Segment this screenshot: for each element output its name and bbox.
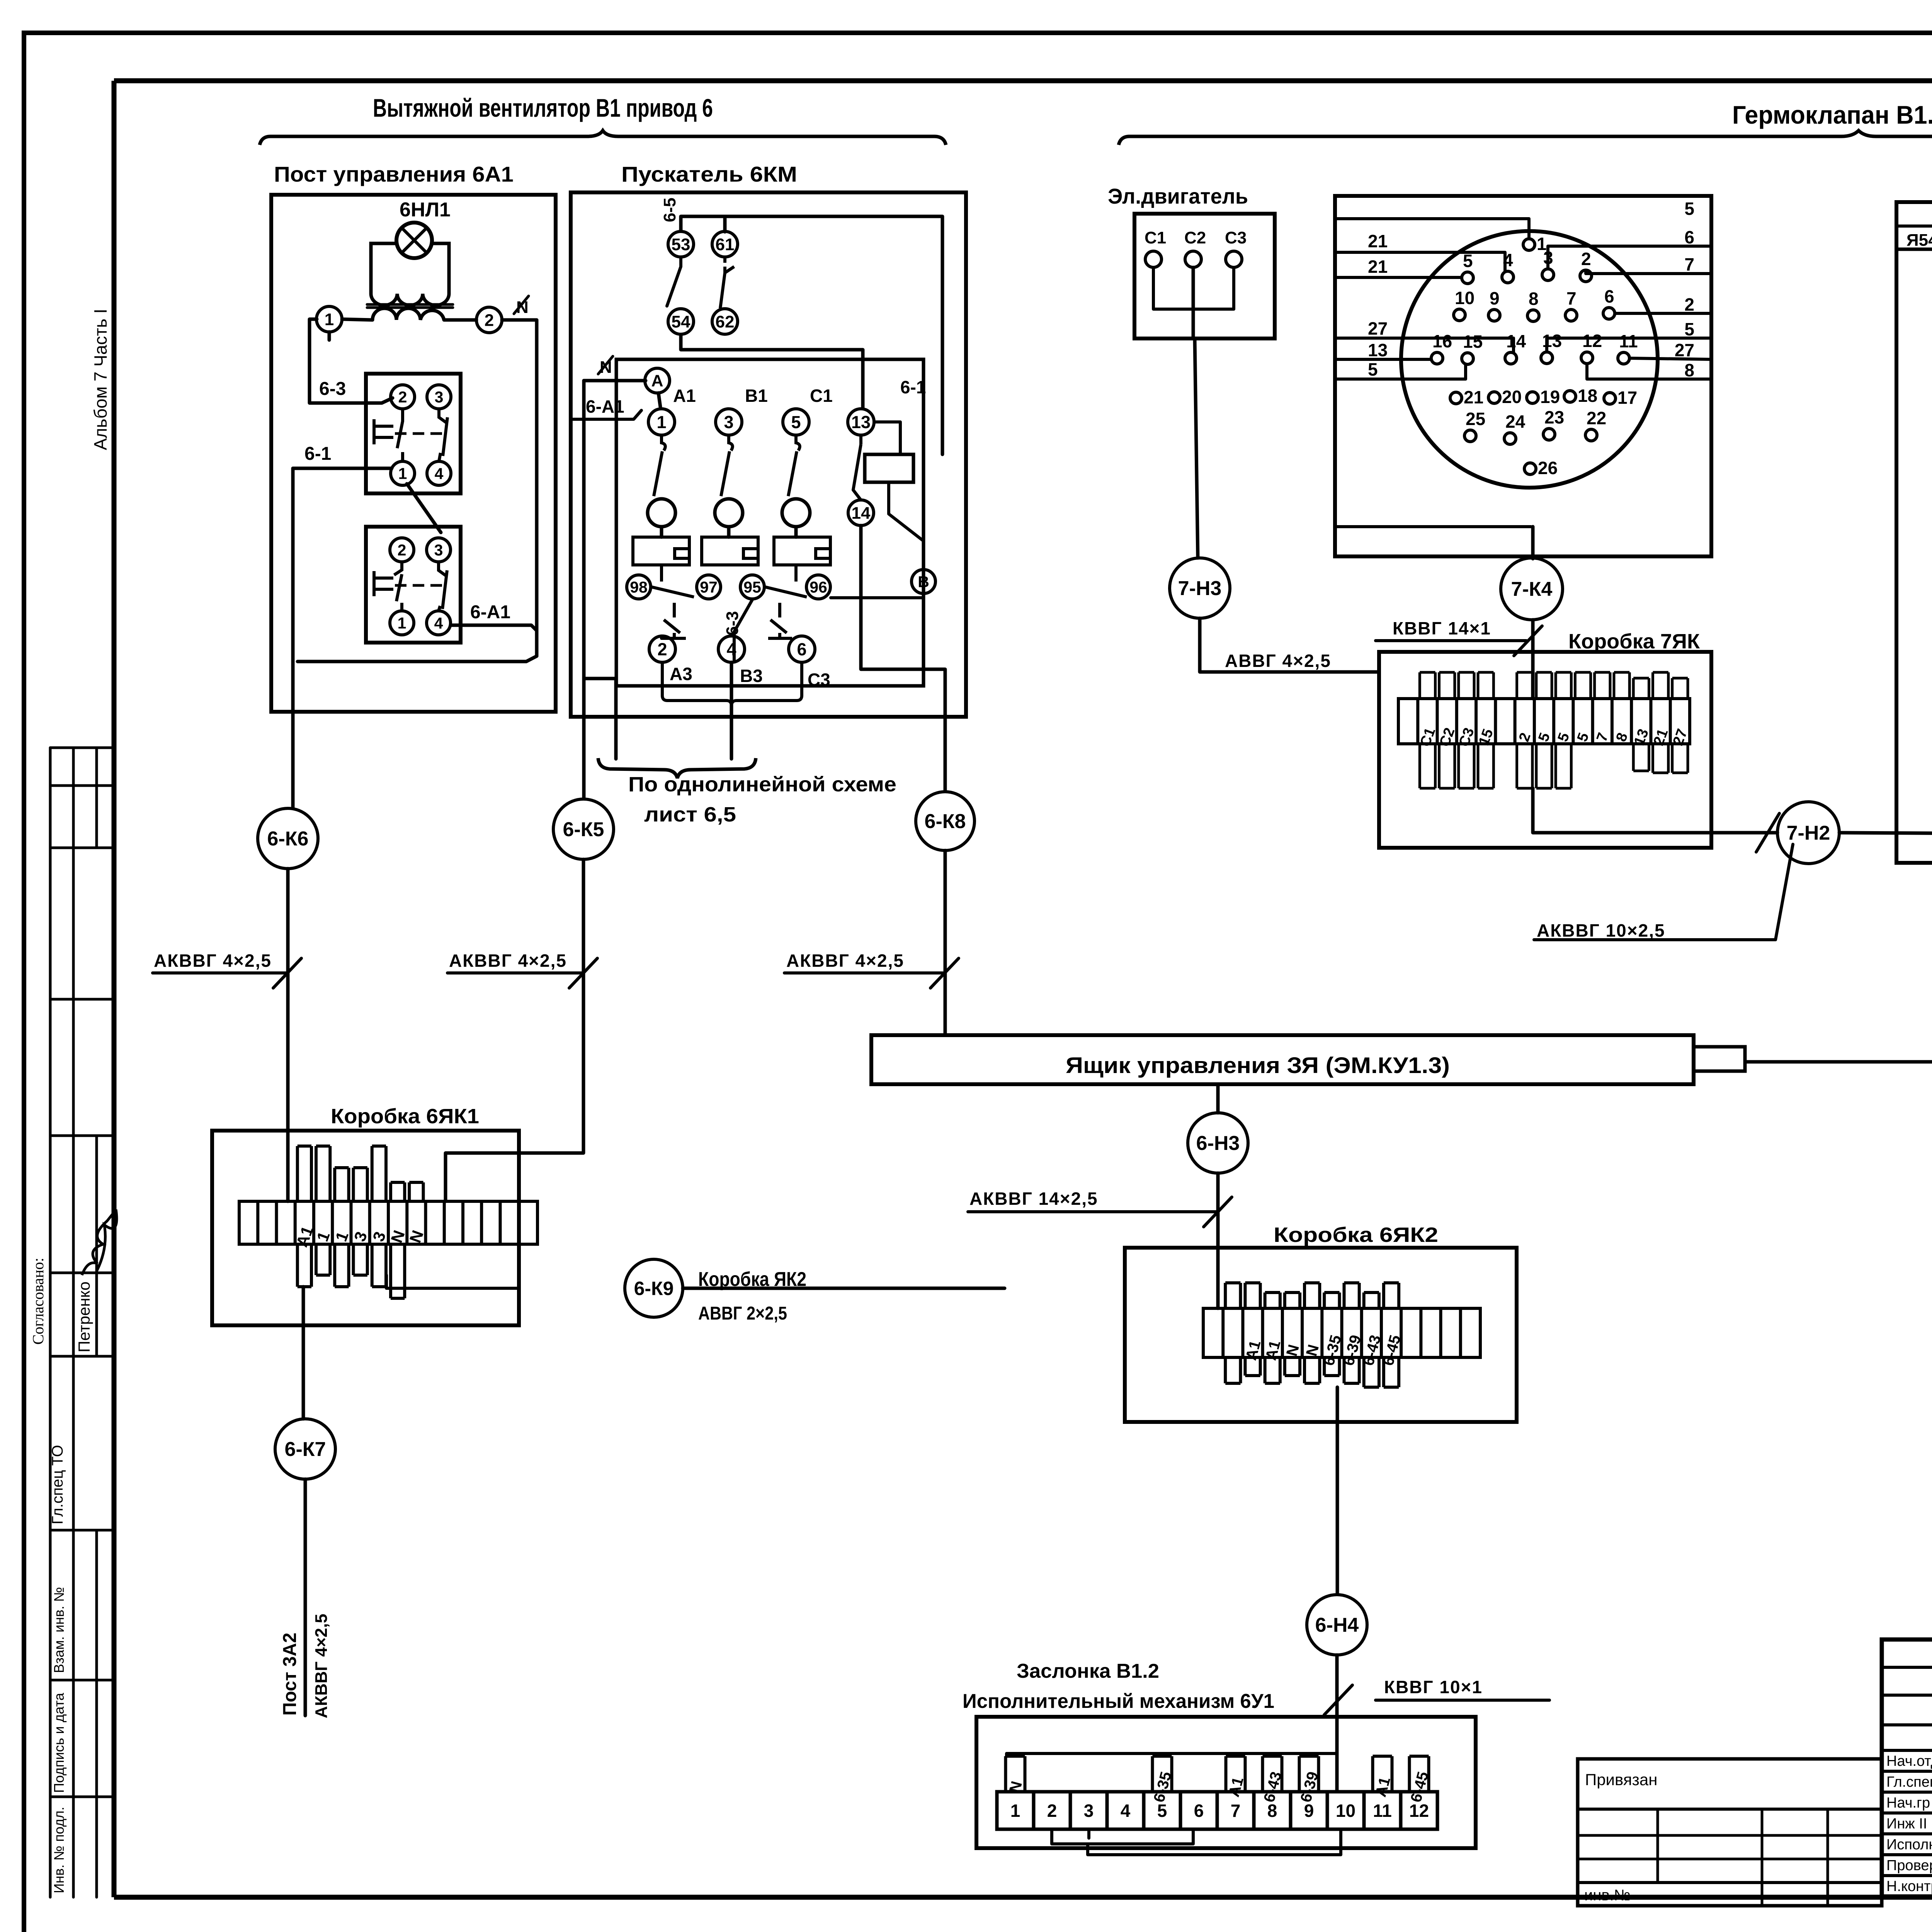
button contact 3 xyxy=(427,385,451,409)
svg-text:3: 3 xyxy=(435,388,444,406)
svg-text:26: 26 xyxy=(1538,458,1558,478)
lower fingers 6YAK2 xyxy=(1225,1357,1240,1383)
connector line right 8 xyxy=(1587,364,1711,379)
transformer core xyxy=(367,303,453,306)
inner panel of 6KM xyxy=(616,359,923,686)
svg-text:2: 2 xyxy=(398,541,406,559)
lower jumper brackets xyxy=(1052,1829,1193,1844)
node 6-N3 xyxy=(1188,1113,1248,1173)
main contacts of poles xyxy=(654,435,665,496)
svg-text:Гермоклапан В1.1 привод 7: Гермоклапан В1.1 привод 7 xyxy=(1732,100,1932,129)
pin 19 xyxy=(1527,392,1538,403)
wire below 6-K6 xyxy=(286,869,290,1201)
connector line right 27 xyxy=(1629,358,1711,359)
svg-text:Нач.гр: Нач.гр xyxy=(1886,1795,1930,1811)
contact strokes upper block xyxy=(397,409,403,461)
svg-text:АКВВГ 4×2,5: АКВВГ 4×2,5 xyxy=(786,951,904,971)
wire top 6-5 rail xyxy=(681,216,942,350)
wire 6-K6 drop from button1 line xyxy=(291,468,295,808)
aux contact 14 xyxy=(848,500,874,526)
pin 1 xyxy=(1523,239,1535,250)
svg-text:КВВГ 10×1: КВВГ 10×1 xyxy=(1384,1677,1483,1697)
wire below 6-K7 / Post 3A2 riser xyxy=(304,1479,307,1716)
wire 13-14 link xyxy=(853,490,861,500)
svg-text:10: 10 xyxy=(1336,1801,1355,1821)
svg-text:11: 11 xyxy=(1373,1801,1392,1821)
svg-text:2: 2 xyxy=(398,388,407,406)
svg-text:Инв. № подл.: Инв. № подл. xyxy=(51,1807,67,1893)
junction box 7YAK xyxy=(1379,652,1711,848)
wire N-leg down to brace xyxy=(584,679,616,759)
wire 13 area to coil xyxy=(941,350,944,454)
lamp 6HL1 xyxy=(396,223,432,258)
wire 6-3 from terminal1 to button 2 xyxy=(328,332,331,340)
svg-text:10: 10 xyxy=(1455,288,1475,308)
pin 25 xyxy=(1464,430,1476,442)
front view frame 7YA cabinet xyxy=(1896,202,1932,863)
svg-text:19: 19 xyxy=(1540,387,1560,407)
svg-text:25: 25 xyxy=(1466,409,1485,429)
pole terminal 5 xyxy=(783,409,809,435)
contact 97 xyxy=(697,575,721,599)
thermal contact symbol left xyxy=(651,565,694,638)
svg-text:97: 97 xyxy=(700,578,718,596)
pin 17 xyxy=(1604,393,1616,404)
transformer secondary coil xyxy=(372,308,444,320)
pin 4 xyxy=(1502,271,1514,283)
thermal contact symbol right xyxy=(765,565,807,638)
button contact 2 xyxy=(391,385,415,409)
svg-text:6-К5: 6-К5 xyxy=(563,818,604,841)
wire B to 96 xyxy=(831,594,923,598)
button contact 1 xyxy=(391,461,415,485)
svg-text:Гл.спец: Гл.спец xyxy=(1886,1774,1932,1790)
svg-text:6-45: 6-45 xyxy=(1407,1770,1432,1804)
aux contact 61 xyxy=(712,231,738,257)
svg-text:6-3: 6-3 xyxy=(319,379,346,399)
pin 21 xyxy=(1450,392,1462,404)
svg-text:12: 12 xyxy=(1409,1801,1429,1821)
svg-text:Исполнительный механизм 6У1: Исполнительный механизм 6У1 xyxy=(963,1690,1274,1713)
contact stroke 53-54 xyxy=(667,257,681,306)
wire coil to terminals xyxy=(342,319,372,320)
svg-text:6-35: 6-35 xyxy=(1150,1770,1175,1804)
svg-text:6-Н4: 6-Н4 xyxy=(1315,1614,1359,1636)
connector line right 5b xyxy=(1547,338,1711,352)
svg-text:В3: В3 xyxy=(740,666,763,686)
lower pushbutton block of 6A1 xyxy=(366,527,461,643)
connector line right 6 xyxy=(1548,246,1711,269)
svg-text:АКВВГ 4×2,5: АКВВГ 4×2,5 xyxy=(449,951,567,971)
svg-text:Привязан: Привязан xyxy=(1585,1770,1657,1789)
svg-text:А1: А1 xyxy=(673,386,696,406)
svg-text:22: 22 xyxy=(1587,408,1606,428)
svg-text:А3: А3 xyxy=(670,664,692,684)
svg-text:3: 3 xyxy=(1084,1801,1094,1821)
upper fingers 7YAK xyxy=(1420,672,1435,699)
pin 10 xyxy=(1454,309,1465,321)
control cabinet 3YA bar xyxy=(871,1035,1694,1084)
wire cross from upper btn1 to lower btn3 xyxy=(407,484,441,532)
svg-text:Эл.двигатель: Эл.двигатель xyxy=(1108,184,1248,208)
svg-text:лист 6,5: лист 6,5 xyxy=(644,803,736,826)
cable circle 6-K8 xyxy=(916,792,975,850)
svg-text:6-К7: 6-К7 xyxy=(285,1438,326,1461)
contact 95 xyxy=(740,575,764,599)
wire 6-N4 down xyxy=(1335,1655,1339,1792)
lower button contact 3 xyxy=(427,538,451,562)
svg-text:2: 2 xyxy=(1047,1801,1057,1821)
aux circuit B coil rect xyxy=(865,454,913,482)
svg-text:15: 15 xyxy=(1463,332,1483,352)
svg-text:6-5: 6-5 xyxy=(660,197,679,222)
type table 7 / Ya5411-2074 xyxy=(1896,202,1932,249)
svg-text:2: 2 xyxy=(657,639,667,659)
pin 8 xyxy=(1527,310,1539,321)
svg-text:11: 11 xyxy=(1619,331,1638,351)
svg-text:21: 21 xyxy=(1464,387,1483,407)
svg-text:Вытяжной вентилятор В1 привод: Вытяжной вентилятор В1 привод 6 xyxy=(373,94,713,122)
svg-text:14: 14 xyxy=(852,503,871,522)
svg-text:АКВВГ 14×2,5: АКВВГ 14×2,5 xyxy=(969,1189,1098,1209)
svg-text:АКВВГ 4×2,5: АКВВГ 4×2,5 xyxy=(154,951,272,971)
cable circle 6-K9 xyxy=(625,1259,683,1317)
wire connector to 7-K4 xyxy=(1531,527,1535,559)
svg-text:27: 27 xyxy=(1368,318,1388,338)
wires from heaters to terminals 2-4-6 xyxy=(660,636,663,638)
svg-text:62: 62 xyxy=(716,312,735,331)
svg-text:АВВГ 2×2,5: АВВГ 2×2,5 xyxy=(698,1303,787,1324)
svg-text:5: 5 xyxy=(1555,731,1573,744)
svg-text:7-Н3: 7-Н3 xyxy=(1178,577,1222,600)
svg-text:6-К9: 6-К9 xyxy=(634,1278,674,1299)
starter 6KM box xyxy=(571,192,966,717)
svg-text:7: 7 xyxy=(1684,254,1694,274)
svg-text:6-43: 6-43 xyxy=(1260,1770,1285,1804)
svg-text:7: 7 xyxy=(1566,288,1577,308)
brace under right title xyxy=(1119,131,1932,145)
wire 6-N3 into strip xyxy=(1216,1291,1219,1308)
wire below 6-K8 xyxy=(944,850,947,1035)
svg-text:5: 5 xyxy=(1684,199,1694,219)
lower button contact 1 xyxy=(390,611,414,635)
wire 54 to contactor rail xyxy=(681,335,863,408)
svg-text:2: 2 xyxy=(1581,249,1591,269)
svg-text:6: 6 xyxy=(1604,286,1614,306)
svg-text:12: 12 xyxy=(1582,331,1602,351)
svg-text:Инж II кат: Инж II кат xyxy=(1886,1816,1932,1832)
terminal strip 6YAK2 xyxy=(1203,1308,1480,1357)
svg-text:8: 8 xyxy=(1684,360,1694,380)
aux contact B xyxy=(912,570,935,594)
button contact 4 xyxy=(427,461,451,485)
svg-text:1: 1 xyxy=(1010,1801,1020,1821)
svg-text:Пост управления 6А1: Пост управления 6А1 xyxy=(274,162,514,186)
wire 7-N2 right xyxy=(1839,833,1932,837)
pin 23 xyxy=(1543,429,1555,440)
pin 3 xyxy=(1542,269,1554,281)
pole coil circles xyxy=(648,499,675,527)
pin 2 xyxy=(1580,270,1592,282)
cable circle 7-K4 xyxy=(1501,558,1563,620)
connector line left 21b xyxy=(1335,276,1462,279)
svg-text:14: 14 xyxy=(1506,331,1526,351)
wire from terminal 4 down xyxy=(730,662,733,759)
svg-text:4: 4 xyxy=(434,614,443,632)
svg-text:6НЛ1: 6НЛ1 xyxy=(400,199,451,221)
svg-text:6-К8: 6-К8 xyxy=(925,810,966,833)
svg-text:6-1: 6-1 xyxy=(900,377,926,397)
svg-text:А: А xyxy=(651,372,663,390)
thermal heater 3 xyxy=(774,537,830,565)
svg-text:18: 18 xyxy=(1578,386,1597,406)
svg-text:В1: В1 xyxy=(745,386,768,406)
connector line left 27 xyxy=(1335,338,1514,353)
pushbutton actuator symbol lower xyxy=(374,571,393,596)
wire 6-A1 entering xyxy=(571,410,641,419)
terminal A circled xyxy=(645,368,670,393)
svg-text:20: 20 xyxy=(1502,387,1522,407)
wire 6-A1 from lower button4 xyxy=(451,625,537,631)
svg-text:6-39: 6-39 xyxy=(1297,1770,1321,1804)
terminal 1 of transformer xyxy=(316,306,342,332)
connector line right 2 xyxy=(1615,312,1711,315)
svg-text:Н.контр: Н.контр xyxy=(1886,1878,1932,1895)
svg-text:инв.№: инв.№ xyxy=(1584,1887,1631,1904)
wire coil to B xyxy=(889,482,923,570)
wire 7-K4 down xyxy=(1531,620,1535,699)
svg-text:3: 3 xyxy=(350,1229,371,1244)
pole terminal 3 xyxy=(716,409,742,435)
svg-text:АКВВГ 10×2,5: АКВВГ 10×2,5 xyxy=(1537,920,1665,940)
upper pushbutton block of 6A1 xyxy=(366,374,461,493)
svg-text:27: 27 xyxy=(1675,340,1694,360)
svg-text:2: 2 xyxy=(1684,294,1694,315)
brace to single line diagram xyxy=(598,758,756,778)
signature rows xyxy=(1882,1770,1932,1773)
pin 20 xyxy=(1488,392,1500,403)
svg-text:2: 2 xyxy=(485,311,494,330)
svg-text:23: 23 xyxy=(1544,407,1564,427)
U jumper 2-6 below terminals xyxy=(662,662,802,706)
lower fingers 7YAK xyxy=(1420,744,1435,788)
connector housing box xyxy=(1335,196,1711,556)
svg-text:21: 21 xyxy=(1368,231,1388,251)
svg-text:Коробка 6ЯК2: Коробка 6ЯК2 xyxy=(1274,1223,1438,1247)
svg-text:7-Н2: 7-Н2 xyxy=(1787,822,1830,844)
svg-text:1: 1 xyxy=(656,412,666,432)
svg-text:Взам. инв. №: Взам. инв. № xyxy=(51,1587,67,1673)
aux contact 62 xyxy=(712,309,738,334)
svg-text:В: В xyxy=(918,573,929,590)
svg-text:С3: С3 xyxy=(808,670,830,690)
svg-text:5: 5 xyxy=(1535,731,1553,744)
svg-text:7-К4: 7-К4 xyxy=(1511,578,1553,600)
cable tick 7-N2 xyxy=(1756,813,1779,852)
cable circle 6-K6 xyxy=(258,808,318,869)
svg-text:КВВГ 14×1: КВВГ 14×1 xyxy=(1393,618,1491,638)
svg-text:5: 5 xyxy=(1368,359,1378,379)
wire 7-N3 down and right xyxy=(1200,618,1379,672)
cable circle 6-K5 xyxy=(553,799,614,859)
svg-text:3: 3 xyxy=(724,412,733,432)
svg-text:6-А1: 6-А1 xyxy=(470,602,510,622)
pin 22 xyxy=(1585,429,1597,441)
pin 13 xyxy=(1541,352,1553,364)
wire motor to 7-N3 xyxy=(1195,338,1198,558)
svg-text:53: 53 xyxy=(672,235,690,254)
lower button contact 2 xyxy=(390,538,414,562)
wire 14 to 6-K8 exit xyxy=(861,526,945,791)
left margin stamp table xyxy=(50,747,114,749)
svg-text:Пост 3А2: Пост 3А2 xyxy=(280,1633,300,1716)
svg-text:6-1: 6-1 xyxy=(304,444,331,464)
svg-text:Гл.спец ТО: Гл.спец ТО xyxy=(49,1445,66,1524)
bottom terminal 2 xyxy=(649,636,675,662)
svg-text:1: 1 xyxy=(398,464,407,482)
svg-text:1: 1 xyxy=(332,1229,352,1244)
svg-text:N: N xyxy=(406,1228,427,1245)
svg-text:13: 13 xyxy=(1368,340,1388,360)
svg-text:По однолинейной схеме: По однолинейной схеме xyxy=(628,773,896,796)
terminal 2 of transformer xyxy=(476,307,502,333)
svg-text:Я5411- 2074: Я5411- 2074 xyxy=(1906,231,1932,250)
svg-text:21: 21 xyxy=(1368,257,1388,277)
pole terminal 1 xyxy=(648,409,675,435)
svg-text:5: 5 xyxy=(1684,319,1694,339)
wire inside 6YAK1 to 6-K9 xyxy=(386,1275,519,1288)
connector circle xyxy=(1401,231,1658,488)
pin 18 xyxy=(1564,391,1576,402)
pin 15 xyxy=(1462,353,1473,364)
svg-text:4: 4 xyxy=(435,464,444,482)
connector inner bottom line xyxy=(1335,525,1531,528)
wire 6-K7 from strip down xyxy=(302,1287,305,1419)
control post 6A1 box xyxy=(271,195,556,712)
svg-text:13: 13 xyxy=(1542,331,1562,351)
pin 12 xyxy=(1581,352,1593,364)
svg-text:Подпись и дата: Подпись и дата xyxy=(51,1692,67,1793)
svg-text:N: N xyxy=(387,1228,408,1245)
svg-text:Провер.: Провер. xyxy=(1886,1857,1932,1874)
svg-text:Коробка 6ЯК1: Коробка 6ЯК1 xyxy=(331,1105,479,1128)
svg-text:3: 3 xyxy=(434,541,443,559)
pin 24 xyxy=(1504,433,1516,444)
svg-text:1: 1 xyxy=(325,310,334,329)
svg-text:АВВГ 4×2,5: АВВГ 4×2,5 xyxy=(1225,651,1331,671)
thermal heater 1 xyxy=(633,537,689,565)
bottom terminal 4 xyxy=(718,636,745,662)
pin 9 xyxy=(1488,310,1500,321)
wire cabinet tab to 7-K5 xyxy=(1745,1060,1932,1064)
thermal heater 2 xyxy=(702,537,758,565)
pin 16 xyxy=(1431,352,1443,364)
svg-text:24: 24 xyxy=(1505,412,1526,432)
contact 98 xyxy=(627,575,651,599)
wire 95 to C3 zone xyxy=(734,600,752,662)
actuator 6U1 box xyxy=(976,1717,1476,1848)
svg-text:А1: А1 xyxy=(1225,1775,1247,1799)
svg-text:3: 3 xyxy=(369,1229,389,1244)
svg-text:5: 5 xyxy=(1574,731,1592,744)
connector line right 7 xyxy=(1586,270,1711,274)
lower button contact 4 xyxy=(427,611,451,635)
svg-text:95: 95 xyxy=(743,578,761,596)
svg-text:6-А1: 6-А1 xyxy=(586,396,624,417)
svg-text:1: 1 xyxy=(313,1229,333,1244)
svg-text:Исполн: Исполн xyxy=(1886,1837,1932,1853)
wire strip to 6-N4 xyxy=(1336,1387,1339,1594)
title block upper rows xyxy=(1882,1666,1932,1669)
pin 26 xyxy=(1524,463,1536,474)
svg-text:Коробка ЯК2: Коробка ЯК2 xyxy=(698,1268,806,1291)
node 6-N4 xyxy=(1307,1595,1367,1655)
pin 11 xyxy=(1618,352,1629,364)
svg-text:17: 17 xyxy=(1617,388,1637,408)
svg-text:13: 13 xyxy=(851,412,871,432)
svg-text:9: 9 xyxy=(1490,288,1500,308)
svg-text:6: 6 xyxy=(797,639,806,659)
svg-text:2: 2 xyxy=(1516,731,1534,744)
title block frame xyxy=(1882,1639,1932,1896)
svg-text:98: 98 xyxy=(630,578,648,596)
wire 6-1 from button1 left xyxy=(293,467,392,470)
connector internal line top 5 xyxy=(1335,219,1529,239)
upper tags on actuator strip xyxy=(1006,1756,1025,1792)
lower fingers 6YAK1 xyxy=(298,1244,311,1287)
svg-text:Согласовано:: Согласовано: xyxy=(29,1258,47,1345)
wire to 6-N3 xyxy=(1216,1084,1220,1113)
svg-text:61: 61 xyxy=(716,235,735,254)
svg-text:6: 6 xyxy=(1194,1801,1204,1821)
contact 96 xyxy=(806,575,830,599)
aux terminal 13 xyxy=(848,409,874,435)
terminal strip 7YAK xyxy=(1398,699,1690,744)
svg-text:8: 8 xyxy=(1613,731,1631,744)
svg-text:16: 16 xyxy=(1432,331,1452,351)
connector line left 13 xyxy=(1335,358,1431,361)
contact stroke 61-62 xyxy=(720,257,734,308)
svg-text:С1: С1 xyxy=(1145,228,1166,247)
node 7-N3 xyxy=(1170,558,1230,618)
wires poles to heaters xyxy=(660,527,663,537)
pin 5 xyxy=(1462,272,1473,284)
connector line left 21a xyxy=(1335,252,1505,272)
privyazan table xyxy=(1578,1759,1882,1906)
contact strokes lower block xyxy=(394,562,402,611)
svg-text:С3: С3 xyxy=(1225,228,1247,247)
cable circle 7-N2 xyxy=(1777,802,1839,864)
svg-text:Петренко: Петренко xyxy=(75,1281,93,1352)
svg-text:А1: А1 xyxy=(1372,1775,1394,1799)
bottom terminal 6 xyxy=(789,636,815,662)
svg-text:7: 7 xyxy=(1594,731,1612,744)
upper fingers 6YAK1 xyxy=(298,1146,311,1201)
svg-text:96: 96 xyxy=(810,578,827,596)
cable circle 6-K7 xyxy=(275,1419,335,1479)
tab on control cabinet xyxy=(1694,1047,1745,1071)
terminal strip 1-12 xyxy=(997,1792,1437,1829)
svg-text:С1: С1 xyxy=(810,386,833,406)
wire A to pole1 xyxy=(658,393,660,407)
svg-text:54: 54 xyxy=(672,312,690,331)
lamp housing / transformer primary xyxy=(371,243,449,294)
upper fingers 6YAK2 xyxy=(1225,1283,1240,1308)
pushbutton actuator symbol upper xyxy=(374,419,393,444)
pin 14 xyxy=(1505,352,1517,364)
motor terminal wires xyxy=(1153,267,1193,309)
svg-text:7: 7 xyxy=(1231,1801,1241,1821)
